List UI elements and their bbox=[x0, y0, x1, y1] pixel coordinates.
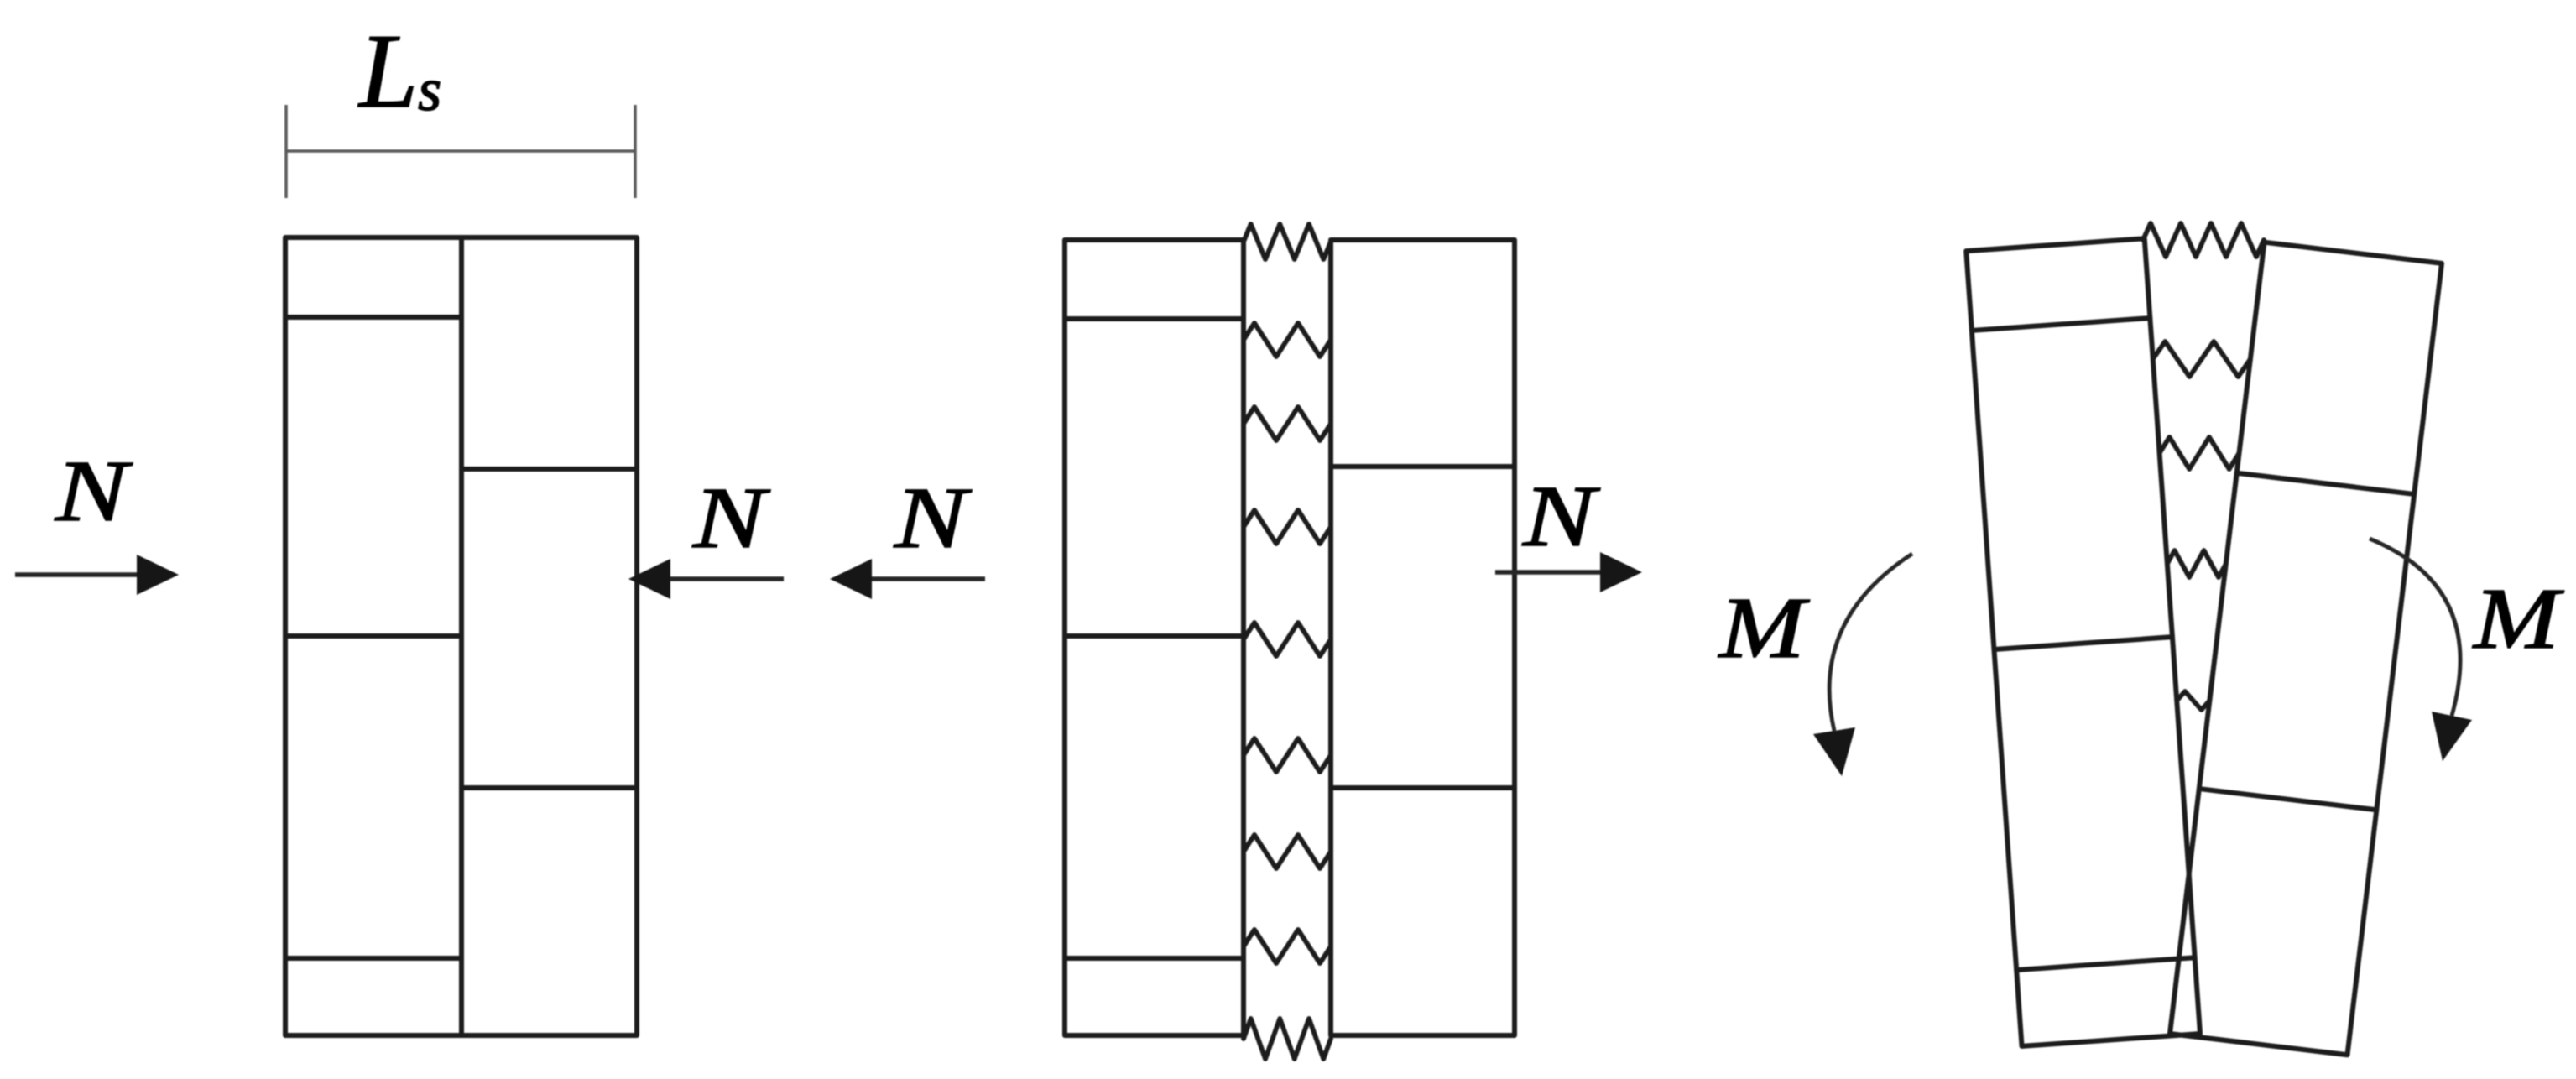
wall panel 2 left leaf bbox=[1065, 240, 1244, 1035]
svg-text:Ls: Ls bbox=[357, 13, 441, 130]
moment arrowhead right bbox=[2432, 712, 2472, 761]
wall panel 2 right leaf bbox=[1331, 240, 1515, 1035]
svg-text:M: M bbox=[1718, 580, 1811, 676]
spring interface zigzags panel 2 bbox=[1244, 224, 1331, 1059]
svg-text:M: M bbox=[2472, 571, 2565, 667]
svg-text:N: N bbox=[692, 470, 771, 566]
svg-text:N: N bbox=[55, 443, 133, 539]
panel 3 left leaf (rotated CCW) bbox=[1966, 238, 2200, 1046]
spring interface zigzags panel 3 bbox=[2143, 223, 2264, 710]
svg-text:N: N bbox=[1522, 468, 1601, 565]
moment arc left bbox=[1829, 554, 1912, 731]
moment arrowhead left bbox=[1813, 727, 1855, 776]
arrow N right of panel 2 (points right) bbox=[1495, 552, 1642, 592]
svg-text:N: N bbox=[894, 470, 973, 566]
arrow N left of panel 2 (points left) bbox=[830, 559, 985, 599]
dimension line Ls bbox=[286, 105, 635, 198]
panel 3 right leaf (rotated CW) bbox=[2170, 242, 2442, 1056]
arrow N left (points right) bbox=[15, 555, 179, 595]
moment arc right bbox=[2370, 539, 2460, 716]
arrow N right of panel 1 (points left) bbox=[628, 559, 784, 599]
wall panel 1 (undeformed) bbox=[285, 237, 637, 1035]
